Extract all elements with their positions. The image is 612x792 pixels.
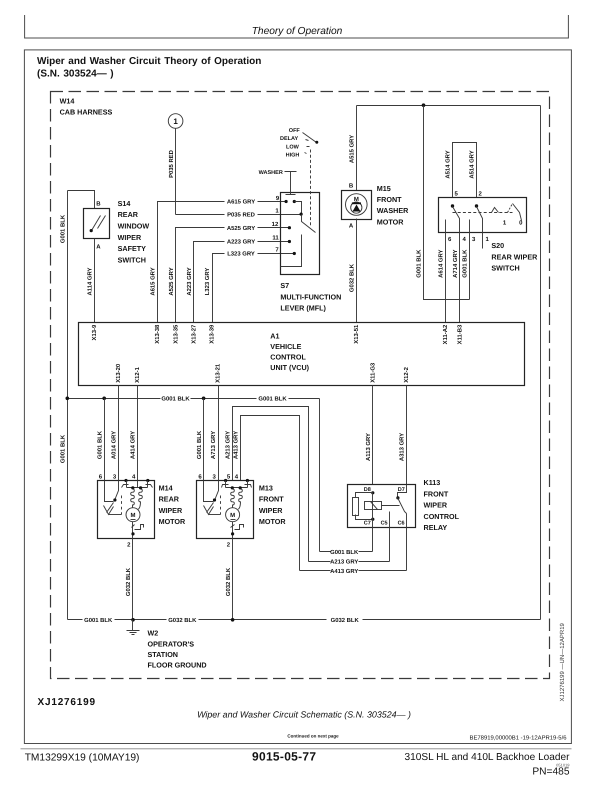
junction — [102, 397, 106, 401]
svg-text:REAR: REAR — [159, 495, 180, 504]
svg-text:G001 BLK: G001 BLK — [60, 214, 67, 243]
svg-text:WASHER: WASHER — [377, 206, 409, 215]
svg-text:STATION: STATION — [148, 650, 178, 659]
svg-text:G032 BLK: G032 BLK — [168, 617, 197, 624]
svg-text:Continued on next page: Continued on next page — [287, 734, 339, 739]
wire stub S20 pin 1 — [482, 234, 484, 249]
svg-text:A223 GRY: A223 GRY — [186, 267, 193, 295]
svg-text:A515 GRY: A515 GRY — [348, 135, 355, 163]
svg-text:X13-39: X13-39 — [209, 324, 216, 344]
svg-text:RELAY: RELAY — [424, 523, 448, 532]
svg-text:A014 GRY: A014 GRY — [111, 431, 118, 459]
svg-text:A714 GRY: A714 GRY — [452, 249, 459, 277]
multi-function lever S7 — [281, 193, 320, 275]
svg-text:WIPER: WIPER — [159, 506, 183, 515]
washer push button symbol — [285, 172, 297, 195]
svg-text:Theory of Operation: Theory of Operation — [252, 26, 343, 37]
relay K113 front wiper control relay — [348, 485, 416, 528]
wire A413 GRY loop (M13 pin 4 to K113 C6) — [241, 416, 300, 571]
W2 label — [148, 629, 207, 670]
switch S14 rear window wiper safety switch — [84, 209, 110, 239]
wire G001 BLK to C7 — [320, 527, 373, 552]
svg-text:B: B — [96, 201, 101, 208]
junction top rail — [422, 103, 426, 107]
wire A014 GRY (VCU X13-20 to M14 pin 3) — [118, 386, 120, 481]
svg-text:A514 GRY: A514 GRY — [445, 150, 452, 178]
svg-text:A514 GRY: A514 GRY — [469, 150, 476, 178]
svg-text:A414 GRY: A414 GRY — [130, 431, 137, 459]
svg-text:CAB HARNESS: CAB HARNESS — [60, 108, 113, 117]
wire G001 BLK to K113 C7 — [319, 399, 321, 552]
svg-text:D8: D8 — [364, 487, 371, 493]
svg-text:WIPER: WIPER — [259, 506, 283, 515]
svg-text:TM13299X19 (10MAY19): TM13299X19 (10MAY19) — [25, 753, 140, 764]
svg-text:X13-9: X13-9 — [91, 324, 98, 340]
S14 label — [118, 199, 150, 265]
svg-text:X11-G3: X11-G3 — [370, 362, 377, 383]
wire A514 GRY jumper S20 pins 5-2 — [453, 143, 477, 198]
svg-text:G032 BLK: G032 BLK — [125, 567, 132, 596]
M15 label — [377, 184, 409, 227]
svg-text:A223 GRY: A223 GRY — [227, 239, 255, 246]
svg-text:A213 GRY: A213 GRY — [330, 559, 358, 566]
svg-text:M14: M14 — [159, 483, 173, 492]
svg-text:CONTROL: CONTROL — [270, 353, 306, 362]
svg-text:REAR: REAR — [118, 210, 139, 219]
svg-text:G001 BLK: G001 BLK — [462, 249, 469, 278]
svg-text:1: 1 — [173, 117, 178, 126]
svg-text:K113: K113 — [424, 478, 441, 487]
svg-text:A413 GRY: A413 GRY — [330, 568, 358, 575]
ground rail G001 — [68, 398, 320, 400]
svg-text:G001 BLK: G001 BLK — [258, 396, 287, 403]
wire G001 BLK drop to M13 pin 6 — [203, 399, 205, 481]
svg-text:FLOOR GROUND: FLOOR GROUND — [148, 661, 207, 670]
svg-text:A: A — [349, 223, 354, 230]
svg-text:SWITCH: SWITCH — [491, 264, 519, 273]
svg-text:A413 GRY: A413 GRY — [232, 431, 239, 459]
wire G032 BLK (M15 to VCU X13-51) — [356, 219, 358, 323]
svg-text:MOTOR: MOTOR — [159, 517, 186, 526]
svg-text:P035 RED: P035 RED — [168, 150, 175, 178]
floor ground rail — [68, 619, 541, 621]
footer separator — [21, 748, 572, 749]
svg-text:S20: S20 — [491, 241, 504, 250]
svg-text:G001 BLK: G001 BLK — [330, 549, 359, 556]
svg-text:VEHICLE: VEHICLE — [270, 342, 301, 351]
motor M15 front washer motor — [342, 191, 372, 220]
svg-text:FRONT: FRONT — [377, 195, 402, 204]
top rail wire A515/G001 — [357, 105, 541, 107]
connector circle 1 — [168, 114, 183, 129]
svg-text:X12-1: X12-1 — [134, 366, 141, 382]
svg-text:G032 BLK: G032 BLK — [331, 617, 360, 624]
ground W2 symbol — [127, 620, 140, 635]
svg-text:A525 GRY: A525 GRY — [227, 225, 255, 232]
svg-text:C6: C6 — [398, 521, 405, 527]
svg-text:OFF: OFF — [289, 128, 301, 134]
svg-text:FRONT: FRONT — [259, 495, 284, 504]
S14 wire pin B jog — [68, 191, 95, 209]
svg-text:BE78919,00000B1 -19-12APR19-5/: BE78919,00000B1 -19-12APR19-5/6 — [470, 735, 568, 742]
rotary switch pointer — [303, 133, 319, 154]
switch S20 rear wiper switch — [439, 198, 527, 234]
wire P035 RED vertical from circle to MFL pin 1 — [175, 129, 177, 215]
wire A213 GRY loop (M13 pin 5 to K113 C5) — [233, 407, 309, 562]
A1 label — [270, 331, 309, 372]
svg-text:A313 GRY: A313 GRY — [399, 433, 406, 461]
MFL internal contacts — [281, 200, 316, 267]
wire G001 BLK from top rail to S20 pin 3 — [424, 106, 470, 300]
wire A525 GRY (VCU X13-35 to MFL pin 12) — [176, 228, 290, 323]
svg-text:X13-27: X13-27 — [190, 324, 197, 344]
svg-text:UNIT (VCU): UNIT (VCU) — [270, 363, 309, 372]
svg-text:D7: D7 — [398, 487, 405, 493]
wire A413 GRY to C6 — [300, 527, 407, 571]
svg-text:X13-20: X13-20 — [115, 363, 122, 383]
svg-text:PN=485: PN=485 — [532, 767, 569, 778]
svg-text:G001 BLK: G001 BLK — [416, 249, 423, 278]
svg-text:(S.N. 303524— ): (S.N. 303524— ) — [37, 69, 114, 80]
svg-text:C5: C5 — [381, 521, 388, 527]
svg-text:W2: W2 — [148, 629, 159, 638]
vehicle control unit A1 box — [79, 323, 525, 386]
svg-text:P035 RED: P035 RED — [227, 211, 255, 218]
svg-text:MOTOR: MOTOR — [377, 217, 404, 226]
svg-text:A615 GRY: A615 GRY — [150, 267, 157, 295]
svg-text:FRONT: FRONT — [424, 489, 449, 498]
svg-text:A1: A1 — [270, 331, 279, 340]
wire right drop to ground rail — [540, 106, 542, 620]
wire A223 GRY (VCU X13-27 to MFL pin 11) — [194, 242, 290, 323]
svg-text:C7: C7 — [364, 521, 371, 527]
svg-text:SAFETY: SAFETY — [118, 244, 147, 253]
S7 label — [280, 281, 341, 312]
wire A714 GRY (S20 pin 4 to VCU X11-B3) — [459, 234, 461, 323]
svg-text:G032 BLK: G032 BLK — [348, 263, 355, 292]
svg-text:12: 12 — [272, 221, 279, 228]
svg-text:B: B — [349, 183, 354, 190]
svg-text:G001 BLK: G001 BLK — [84, 617, 113, 624]
junction — [131, 618, 135, 622]
svg-text:A614 GRY: A614 GRY — [438, 249, 445, 277]
svg-text:SWITCH: SWITCH — [118, 255, 146, 264]
svg-text:WIPER: WIPER — [424, 501, 448, 510]
svg-text:G032 BLK: G032 BLK — [225, 567, 232, 596]
svg-text:REAR WIPER: REAR WIPER — [491, 252, 538, 261]
svg-text:WINDOW: WINDOW — [118, 222, 150, 231]
wire G001 BLK left vertical (S14 to ground rail) — [67, 191, 69, 620]
svg-text:A: A — [96, 244, 101, 251]
M13 label — [259, 483, 286, 526]
svg-text:LEVER (MFL): LEVER (MFL) — [280, 304, 326, 313]
svg-text:A525 GRY: A525 GRY — [168, 267, 175, 295]
svg-text:310SL HL and 410L Backhoe Load: 310SL HL and 410L Backhoe Loader — [405, 752, 571, 763]
svg-text:L323 GRY: L323 GRY — [227, 251, 255, 258]
wire A114 GRY (S14 to VCU X13-9) — [94, 239, 96, 323]
rotary switch dashed linkage — [310, 150, 312, 227]
wire G032 BLK (M13 to floor ground) — [232, 539, 234, 620]
svg-text:A113 GRY: A113 GRY — [365, 433, 372, 461]
svg-text:Wiper and Washer Circuit Theor: Wiper and Washer Circuit Theory of Opera… — [37, 56, 261, 67]
motor M14 rear wiper motor — [98, 479, 155, 539]
svg-text:G001 BLK: G001 BLK — [161, 396, 190, 403]
wire A614 GRY (S20 pin 6 to VCU X11-A2) — [445, 234, 447, 323]
motor M13 front wiper motor — [197, 479, 254, 539]
wire A414 GRY (VCU X12-1 to M14 pin 4) — [137, 386, 139, 481]
junction — [231, 618, 235, 622]
wire A313 GRY (VCU X12-2 to K113 D7) — [406, 386, 408, 485]
K113 label — [424, 478, 460, 532]
wire A615 GRY (VCU X13-38 to MFL pin 9) — [158, 202, 287, 323]
harness W14 dashed border — [51, 92, 550, 679]
svg-text:S14: S14 — [118, 199, 131, 208]
svg-text:X13-51: X13-51 — [353, 324, 360, 344]
svg-text:L323 GRY: L323 GRY — [204, 268, 211, 296]
svg-text:HIGH: HIGH — [286, 153, 300, 159]
svg-text:M: M — [131, 512, 136, 519]
junction — [66, 397, 70, 401]
svg-text:X13-38: X13-38 — [154, 324, 161, 344]
svg-text:X11-A2: X11-A2 — [442, 324, 449, 344]
wire G001 BLK drop to M14 pin 6 — [104, 399, 106, 481]
svg-text:X11-B3: X11-B3 — [457, 324, 464, 344]
svg-text:XJ1276199 —UN—12APR19: XJ1276199 —UN—12APR19 — [559, 622, 566, 701]
svg-text:Wiper and Washer Circuit Schem: Wiper and Washer Circuit Schematic (S.N.… — [197, 710, 411, 720]
main content frame — [24, 50, 571, 744]
svg-text:A213 GRY: A213 GRY — [225, 431, 232, 459]
junction — [202, 397, 206, 401]
wire A713 GRY (VCU X13-21 to M13 pin 3) — [218, 386, 220, 481]
svg-text:A114 GRY: A114 GRY — [86, 267, 93, 295]
svg-text:X12-2: X12-2 — [403, 366, 410, 382]
wire L323 GRY (VCU X13-39 to MFL pin 7) — [213, 254, 295, 323]
svg-text:XJ1276199: XJ1276199 — [38, 697, 96, 708]
svg-text:11: 11 — [272, 235, 279, 242]
svg-text:M: M — [354, 196, 359, 203]
S20 label — [491, 241, 538, 272]
svg-text:CONTROL: CONTROL — [424, 512, 460, 521]
svg-text:9015-05-77: 9015-05-77 — [252, 750, 316, 764]
svg-text:M15: M15 — [377, 184, 391, 193]
svg-text:MOTOR: MOTOR — [259, 517, 286, 526]
svg-text:X13-35: X13-35 — [172, 324, 179, 344]
svg-text:G001 BLK: G001 BLK — [196, 430, 203, 459]
svg-text:G001 BLK: G001 BLK — [60, 434, 67, 463]
svg-text:DELAY: DELAY — [280, 136, 298, 142]
svg-text:WASHER: WASHER — [259, 170, 283, 176]
svg-text:WIPER: WIPER — [118, 233, 142, 242]
svg-text:S7: S7 — [280, 281, 289, 290]
page header box — [25, 15, 569, 38]
svg-text:G001 BLK: G001 BLK — [96, 430, 103, 459]
svg-text:M13: M13 — [259, 483, 273, 492]
wire A213 GRY to C5 — [309, 527, 390, 562]
wire A515 GRY to M15 — [356, 106, 358, 191]
svg-text:MULTI-FUNCTION: MULTI-FUNCTION — [280, 292, 341, 301]
svg-text:LOW: LOW — [286, 144, 300, 150]
svg-text:A713 GRY: A713 GRY — [210, 431, 217, 459]
wire A113 GRY (VCU X11-G3 to K113 D8) — [372, 386, 374, 485]
svg-text:X13-21: X13-21 — [215, 363, 222, 383]
wire P035 RED horizontal to MFL pin 1 — [176, 214, 302, 216]
svg-text:A615 GRY: A615 GRY — [227, 199, 255, 206]
svg-text:OPERATOR'S: OPERATOR'S — [148, 639, 195, 648]
M14 label — [159, 483, 186, 526]
svg-text:M: M — [230, 512, 235, 519]
wire G032 BLK (M14 to floor ground) — [132, 539, 134, 620]
svg-text:W14: W14 — [60, 96, 75, 105]
rotary switch position labels — [280, 128, 300, 159]
